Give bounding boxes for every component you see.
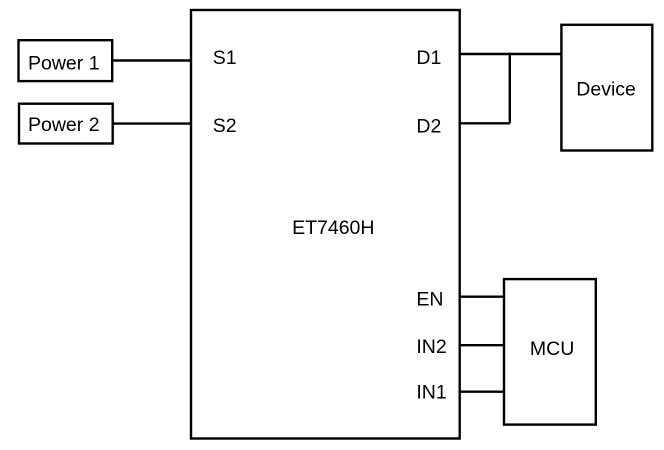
svg-text:S2: S2: [213, 115, 237, 137]
svg-text:EN: EN: [416, 288, 443, 310]
svg-text:Device: Device: [576, 79, 636, 101]
svg-text:ET7460H: ET7460H: [292, 217, 374, 239]
svg-text:Power 1: Power 1: [28, 53, 100, 75]
block Power 2: [19, 104, 113, 144]
wire IN1 to MCU: [460, 391, 504, 393]
svg-text:IN1: IN1: [416, 382, 446, 404]
block Device: [561, 25, 652, 151]
block U1 ET7460H: [191, 10, 460, 439]
wire D2 vertical to D1 net: [509, 53, 511, 124]
svg-text:MCU: MCU: [530, 338, 574, 360]
svg-text:D2: D2: [416, 116, 441, 138]
svg-text:S1: S1: [213, 47, 237, 69]
wire D1 to Device: [460, 53, 562, 55]
wire Power2 to S2: [113, 122, 191, 124]
svg-text:Power 2: Power 2: [28, 114, 100, 136]
svg-text:D1: D1: [416, 47, 441, 69]
svg-text:IN2: IN2: [416, 336, 446, 358]
wire D2 horizontal: [460, 122, 510, 124]
block MCU: [504, 279, 596, 425]
wire EN to MCU: [460, 296, 504, 298]
wire IN2 to MCU: [460, 344, 504, 346]
wire Power1 to S1: [112, 59, 191, 61]
block Power 1: [19, 40, 113, 81]
